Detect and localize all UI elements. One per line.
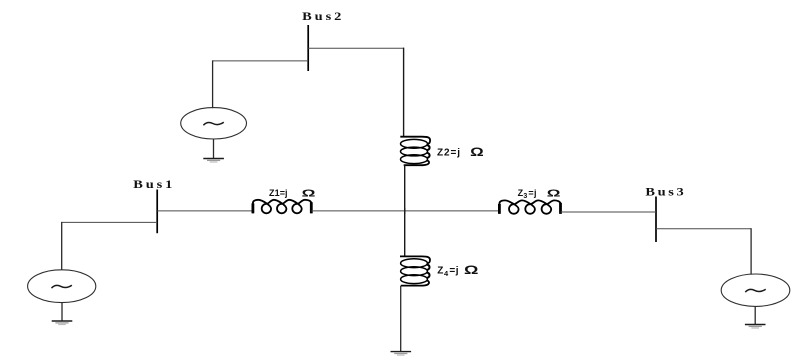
wire down to generator G2 (212, 60, 214, 108)
svg-text:Ω: Ω (470, 147, 484, 159)
ground under Z4 (391, 352, 412, 356)
svg-text:3: 3 (523, 193, 527, 200)
wire Z4 to ground (400, 286, 402, 352)
wire Bus2 to center (horizontal) (308, 47, 404, 49)
generator G1 (AC source) (28, 270, 96, 303)
svg-text:=j: =j (449, 265, 459, 276)
inductor Z1 (253, 200, 311, 214)
ground under G2 (203, 159, 224, 163)
svg-text:Z1=j: Z1=j (269, 188, 288, 198)
svg-text:Z: Z (437, 265, 443, 276)
wire G2 to ground (213, 139, 215, 158)
svg-text:Bus2: Bus2 (302, 9, 344, 23)
wire Bus1 to Z1 (157, 210, 253, 212)
svg-text:4: 4 (444, 269, 449, 278)
bus bar Bus2 (307, 25, 309, 71)
bus bar Bus3 (655, 197, 657, 243)
generator G3 (AC source) (721, 274, 790, 306)
wire Bus2 to generator G2 (horizontal) (212, 60, 308, 62)
ground under G3 (745, 325, 766, 329)
wire G3 to ground (754, 306, 756, 324)
svg-text:Bus3: Bus3 (645, 185, 686, 199)
wire down to generator G3 (750, 228, 752, 274)
svg-text:Z2=j: Z2=j (437, 147, 461, 158)
junction node (404, 208, 406, 214)
wire center vertical down to Z2 (403, 48, 405, 137)
label Z4=j Ohm (437, 265, 478, 278)
wire Z3 to Bus3 (561, 211, 657, 213)
wire Bus1 to generator G1 (horizontal) (62, 221, 158, 223)
bus bar Bus1 (156, 190, 158, 234)
svg-text:Bus1: Bus1 (133, 177, 175, 191)
wire G1 to ground (61, 302, 63, 320)
svg-text:Ω: Ω (302, 188, 316, 200)
inductor Z2 (400, 137, 430, 166)
wire Z1 to center junction to Z3 (311, 210, 499, 212)
svg-text:Ω: Ω (464, 265, 478, 277)
generator G2 (AC source) (181, 108, 247, 139)
label Z3=j Ohm (518, 187, 561, 200)
wire Z2 to junction to Z4 (404, 165, 406, 256)
inductor Z3 (499, 200, 560, 213)
label Z2=j Ohm (437, 147, 484, 159)
svg-text:=j: =j (528, 188, 536, 198)
wire down to generator G1 (61, 222, 63, 270)
ground under G1 (52, 321, 73, 325)
inductor Z4 (400, 256, 430, 285)
wire Bus3 to generator G3 (horizontal) (656, 228, 751, 230)
svg-text:Ω: Ω (547, 187, 561, 199)
label Z1=j Ohm (269, 188, 315, 200)
